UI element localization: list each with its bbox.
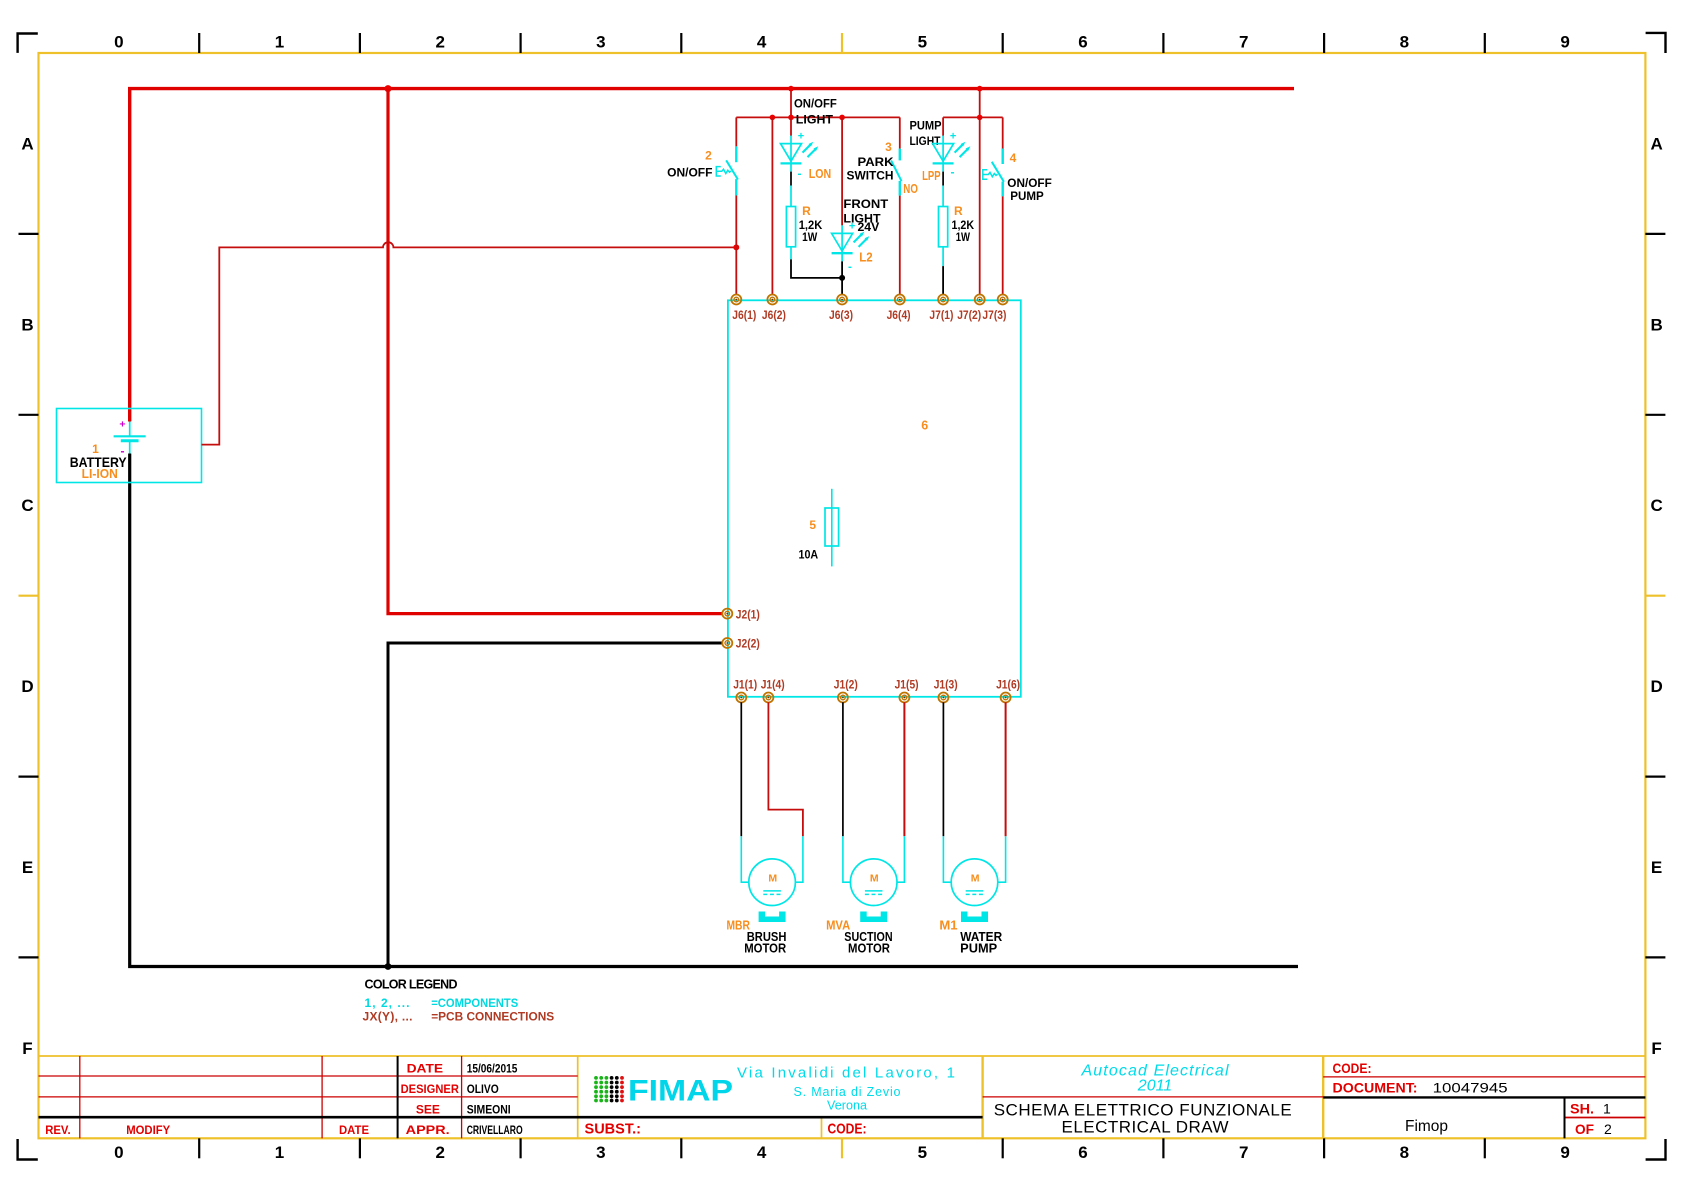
connection point J2(1) bbox=[722, 609, 732, 619]
wire red PARK SWITCH branch upper bbox=[899, 117, 901, 148]
wire red J1(4) to brush motor bbox=[768, 702, 803, 836]
LED LON bbox=[781, 131, 819, 172]
junction on bus at thick feeder tap bbox=[385, 85, 392, 92]
svg-text:+: + bbox=[119, 419, 125, 431]
svg-text:SCHEMA ELETTRICO FUNZIONALE: SCHEMA ELETTRICO FUNZIONALE bbox=[994, 1100, 1292, 1119]
svg-text:ON/OFF: ON/OFF bbox=[794, 97, 837, 111]
svg-text:E: E bbox=[22, 858, 33, 877]
svg-text:MODIFY: MODIFY bbox=[126, 1123, 170, 1137]
PCB module 6 bbox=[728, 300, 1021, 697]
labels M1 WATER PUMP bbox=[939, 917, 1002, 955]
LED LPP PUMP LIGHT bbox=[933, 131, 971, 172]
connection point J6(3) bbox=[837, 295, 847, 305]
svg-text:J2(2): J2(2) bbox=[736, 639, 760, 651]
connection point J2(2) bbox=[722, 638, 732, 648]
svg-text:J6(1): J6(1) bbox=[732, 310, 756, 322]
connection point J1(2) bbox=[838, 693, 848, 703]
connection point J7(2) bbox=[975, 295, 985, 305]
connection point J7(3) bbox=[998, 295, 1008, 305]
svg-text:SIMEONI: SIMEONI bbox=[467, 1104, 511, 1116]
labels J2 pins bbox=[736, 609, 760, 650]
svg-text:10047945: 10047945 bbox=[1433, 1080, 1508, 1096]
wire cyan resistor lead top (LON) bbox=[790, 186, 792, 207]
svg-text:J6(2): J6(2) bbox=[762, 310, 786, 322]
svg-text:PUMP: PUMP bbox=[960, 942, 997, 956]
svg-text:LIGHT: LIGHT bbox=[910, 134, 941, 148]
svg-text:1,2K: 1,2K bbox=[799, 220, 823, 232]
svg-text:6: 6 bbox=[921, 418, 928, 432]
svg-text:1: 1 bbox=[275, 1143, 284, 1162]
labels MBR BRUSH MOTOR bbox=[727, 917, 787, 955]
wire J6(1) branch upper bbox=[735, 117, 737, 146]
svg-text:A: A bbox=[21, 134, 33, 153]
svg-text:ON/OFF: ON/OFF bbox=[1007, 176, 1052, 190]
connection point J1(4) bbox=[763, 693, 773, 703]
svg-text:3: 3 bbox=[596, 1143, 605, 1162]
svg-text:J1(6): J1(6) bbox=[996, 680, 1020, 692]
wire battery negative black to bottom bus bbox=[130, 454, 1298, 967]
svg-text:C: C bbox=[21, 496, 33, 515]
wire thick red feeder from bus to J2(1) bbox=[388, 89, 723, 614]
svg-text:COLOR LEGEND: COLOR LEGEND bbox=[365, 977, 458, 991]
color legend bbox=[363, 977, 555, 1023]
svg-text:4: 4 bbox=[1010, 151, 1017, 165]
svg-text:15/06/2015: 15/06/2015 bbox=[467, 1064, 518, 1076]
connection point J1(1) bbox=[736, 693, 746, 703]
svg-text:2: 2 bbox=[705, 149, 712, 163]
svg-text:PUMP: PUMP bbox=[1010, 189, 1044, 203]
junction dots on distribution line 2 bbox=[977, 115, 983, 121]
svg-text:-: - bbox=[798, 167, 802, 181]
svg-text:ELECTRICAL DRAW: ELECTRICAL DRAW bbox=[1062, 1118, 1229, 1137]
svg-text:J1(3): J1(3) bbox=[934, 680, 958, 692]
wire red FRONT LIGHT branch upper bbox=[841, 117, 843, 225]
label ON/OFF LIGHT bbox=[794, 97, 837, 127]
svg-text:9: 9 bbox=[1560, 1143, 1569, 1162]
junction dot at J6(3) node bbox=[839, 275, 845, 281]
wire J6(2) branch bbox=[771, 117, 773, 295]
svg-text:J7(2): J7(2) bbox=[957, 310, 981, 322]
svg-text:3: 3 bbox=[885, 140, 892, 154]
wire red J7(2) branch bbox=[979, 117, 981, 295]
motor MVA suction motor bbox=[850, 859, 897, 922]
wire cyan resistor lead top (LPP) bbox=[942, 186, 944, 207]
svg-text:D: D bbox=[21, 677, 33, 696]
wire cyan suction motor left lead bbox=[843, 836, 851, 882]
svg-text:LI-ION: LI-ION bbox=[82, 466, 118, 481]
wire cyan brush motor left lead bbox=[741, 836, 749, 882]
svg-text:A: A bbox=[1650, 134, 1662, 153]
wire distribution line 2 bbox=[943, 116, 1003, 118]
labels J1 pins bbox=[733, 680, 1020, 692]
svg-text:2: 2 bbox=[1604, 1121, 1612, 1137]
svg-text:DESIGNER: DESIGNER bbox=[401, 1082, 460, 1096]
junction dot battery feed joins switch2 branch bbox=[733, 244, 739, 250]
wire cyan water pump left lead bbox=[943, 836, 951, 882]
svg-text:1: 1 bbox=[275, 33, 284, 52]
svg-text:JX(Y), ...: JX(Y), ... bbox=[363, 1010, 413, 1024]
resistor R 1,2K 1W (LON branch) bbox=[786, 204, 823, 247]
wire red J1(6) to water pump bbox=[1005, 702, 1007, 836]
svg-text:PARK: PARK bbox=[858, 155, 894, 169]
svg-text:J7(3): J7(3) bbox=[982, 310, 1006, 322]
svg-text:Fimop: Fimop bbox=[1405, 1118, 1448, 1135]
svg-text:2: 2 bbox=[435, 1143, 444, 1162]
svg-text:1: 1 bbox=[1603, 1101, 1611, 1117]
wire red switch 4 branch lower to J7(3) bbox=[1002, 196, 1004, 295]
svg-text:R: R bbox=[802, 204, 811, 218]
svg-text:FIMAP: FIMAP bbox=[628, 1075, 733, 1108]
svg-text:J2(1): J2(1) bbox=[736, 609, 760, 621]
svg-text:=COMPONENTS: =COMPONENTS bbox=[431, 996, 518, 1010]
wire J6(1) branch lower bbox=[735, 196, 737, 295]
connection point J1(6) bbox=[1001, 693, 1011, 703]
svg-text:6: 6 bbox=[1078, 1143, 1087, 1162]
svg-text:SWITCH: SWITCH bbox=[847, 169, 894, 183]
switch 4 ON/OFF PUMP bbox=[983, 149, 1052, 203]
wire black L2 cathode to J6(3) bbox=[841, 261, 843, 295]
resistor R 1,2K 1W (LPP branch) bbox=[939, 204, 975, 247]
connection point J6(2) bbox=[767, 295, 777, 305]
wire black LPP cathode bbox=[942, 172, 944, 186]
svg-text:OLIVO: OLIVO bbox=[467, 1084, 499, 1096]
wire cyan brush motor right lead bbox=[795, 836, 803, 882]
motor M1 water pump bbox=[951, 859, 998, 922]
svg-text:DOCUMENT:: DOCUMENT: bbox=[1333, 1080, 1418, 1096]
svg-text:0: 0 bbox=[114, 1143, 123, 1162]
svg-text:J7(1): J7(1) bbox=[929, 310, 953, 322]
connection point J6(4) bbox=[895, 295, 905, 305]
wire red PARK SWITCH branch lower to J6(4) bbox=[899, 196, 901, 295]
svg-text:2011: 2011 bbox=[1137, 1078, 1172, 1095]
svg-text:-: - bbox=[848, 260, 852, 274]
wire red switch 4 branch upper bbox=[1002, 117, 1004, 148]
wire red PUMP LIGHT anode stub bbox=[942, 117, 944, 136]
wire cyan resistor lead bottom (LPP) bbox=[942, 247, 944, 266]
svg-text:J1(1): J1(1) bbox=[733, 680, 757, 692]
svg-text:-: - bbox=[951, 165, 955, 179]
svg-text:F: F bbox=[1651, 1039, 1661, 1058]
svg-text:0: 0 bbox=[114, 33, 123, 52]
wire distribution line 1 bbox=[736, 116, 900, 118]
wire bus tap at J7(2) branch bbox=[979, 89, 981, 118]
motor MBR brush motor bbox=[749, 859, 796, 922]
junction dots on distribution line 1 bbox=[770, 115, 776, 121]
svg-text:2: 2 bbox=[435, 33, 444, 52]
svg-text:SH.: SH. bbox=[1570, 1101, 1594, 1117]
wire thin red from battery to switch 2 branch with hop bbox=[202, 242, 737, 444]
svg-text:B: B bbox=[21, 315, 33, 334]
svg-text:C: C bbox=[1650, 496, 1662, 515]
svg-text:1,2K: 1,2K bbox=[952, 220, 975, 232]
svg-text:REV.: REV. bbox=[45, 1123, 70, 1137]
svg-text:1W: 1W bbox=[956, 232, 970, 244]
svg-text:R: R bbox=[954, 204, 963, 218]
svg-text:OF: OF bbox=[1575, 1121, 1594, 1137]
wire cyan water pump right lead bbox=[998, 836, 1006, 882]
svg-text:F: F bbox=[22, 1039, 32, 1058]
svg-text:8: 8 bbox=[1400, 33, 1409, 52]
svg-text:S. Maria di Zevio: S. Maria di Zevio bbox=[794, 1085, 901, 1099]
svg-text:5: 5 bbox=[918, 33, 927, 52]
wire black LPP branch to J7(1) bbox=[942, 266, 944, 295]
svg-text:MOTOR: MOTOR bbox=[744, 942, 786, 956]
fuse 5 10A bbox=[799, 489, 839, 567]
svg-text:ON/OFF: ON/OFF bbox=[667, 166, 712, 180]
svg-text:CODE:: CODE: bbox=[1333, 1060, 1372, 1076]
switch 3 PARK SWITCH bbox=[847, 140, 919, 196]
svg-text:DATE: DATE bbox=[407, 1062, 444, 1076]
svg-text:3: 3 bbox=[596, 33, 605, 52]
LED L2 FRONT LIGHT bbox=[832, 220, 870, 261]
wire cyan suction motor right lead bbox=[897, 836, 904, 882]
svg-text:SUBST.:: SUBST.: bbox=[585, 1121, 642, 1138]
svg-text:1W: 1W bbox=[802, 232, 817, 244]
svg-text:NO: NO bbox=[903, 182, 918, 196]
svg-text:D: D bbox=[1650, 677, 1662, 696]
wire black J1(1) to brush motor bbox=[740, 702, 742, 836]
wire red J1(5) to suction motor bbox=[903, 702, 905, 836]
svg-text:SEE: SEE bbox=[416, 1102, 440, 1116]
svg-text:B: B bbox=[1650, 315, 1662, 334]
svg-text:L2: L2 bbox=[859, 250, 872, 265]
svg-text:PUMP: PUMP bbox=[910, 119, 942, 133]
svg-text:4: 4 bbox=[757, 1143, 767, 1162]
svg-text:LPP: LPP bbox=[922, 168, 941, 183]
svg-text:7: 7 bbox=[1239, 1143, 1248, 1162]
svg-text:Via Invalidi del Lavoro, 1: Via Invalidi del Lavoro, 1 bbox=[737, 1064, 955, 1081]
connection point J6(1) bbox=[731, 295, 741, 305]
svg-text:FRONT: FRONT bbox=[843, 197, 888, 211]
svg-text:J1(4): J1(4) bbox=[761, 680, 785, 692]
label PUMP LIGHT bbox=[910, 119, 942, 148]
wire cyan resistor lead bottom (LON) bbox=[790, 247, 792, 260]
wire black J1(3) to water pump bbox=[942, 702, 944, 836]
svg-text:1, 2, ...: 1, 2, ... bbox=[365, 996, 410, 1010]
svg-text:4: 4 bbox=[757, 33, 767, 52]
junction on bottom bus at J2(2) feeder bbox=[385, 963, 392, 970]
svg-text:J6(4): J6(4) bbox=[887, 310, 911, 322]
svg-text:M1: M1 bbox=[939, 917, 957, 932]
wire bus tap at LED LON branch bbox=[790, 89, 792, 118]
svg-text:CRIVELLARO: CRIVELLARO bbox=[467, 1125, 523, 1137]
wire black J1(2) to suction motor bbox=[842, 702, 844, 836]
svg-text:LON: LON bbox=[809, 166, 831, 181]
svg-text:=PCB CONNECTIONS: =PCB CONNECTIONS bbox=[431, 1010, 554, 1024]
svg-text:8: 8 bbox=[1400, 1143, 1409, 1162]
connection point J7(1) bbox=[938, 295, 948, 305]
svg-text:10A: 10A bbox=[799, 549, 819, 561]
svg-text:6: 6 bbox=[1078, 33, 1087, 52]
wire thick black from J2(2) to bottom bus bbox=[388, 643, 723, 967]
svg-text:5: 5 bbox=[918, 1143, 927, 1162]
svg-text:DATE: DATE bbox=[339, 1123, 369, 1137]
svg-text:LIGHT: LIGHT bbox=[796, 113, 834, 127]
battery 1 LI-ION bbox=[57, 409, 202, 483]
label FRONT LIGHT 24V bbox=[843, 197, 888, 234]
labels J6 J7 pins bbox=[732, 310, 1006, 322]
svg-text:E: E bbox=[1651, 858, 1662, 877]
svg-text:J6(3): J6(3) bbox=[829, 310, 853, 322]
labels MVA SUCTION MOTOR bbox=[826, 917, 893, 955]
connection point J1(3) bbox=[938, 693, 948, 703]
wire black from resistor to J6(3) node bbox=[791, 259, 842, 278]
svg-text:J1(5): J1(5) bbox=[895, 680, 919, 692]
svg-text:MOTOR: MOTOR bbox=[848, 942, 890, 956]
connection point J1(5) bbox=[899, 693, 909, 703]
wire LED LON anode stub bbox=[790, 117, 792, 136]
switch 2 ON/OFF bbox=[667, 146, 738, 195]
wire +24V red bus from battery positive bbox=[130, 89, 1294, 422]
wire black LED LON cathode bbox=[790, 172, 792, 186]
svg-text:5: 5 bbox=[809, 518, 816, 532]
svg-text:J1(2): J1(2) bbox=[834, 680, 858, 692]
svg-text:24V: 24V bbox=[858, 220, 880, 234]
svg-text:7: 7 bbox=[1239, 33, 1248, 52]
svg-text:CODE:: CODE: bbox=[828, 1121, 867, 1138]
svg-text:9: 9 bbox=[1560, 33, 1569, 52]
svg-text:Verona: Verona bbox=[827, 1099, 867, 1113]
svg-text:APPR.: APPR. bbox=[406, 1123, 450, 1137]
